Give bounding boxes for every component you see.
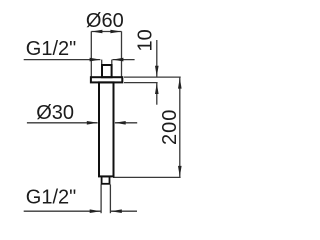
svg-text:G1/2": G1/2" [26, 187, 76, 209]
svg-text:200: 200 [159, 109, 181, 145]
svg-text:G1/2": G1/2" [26, 38, 76, 60]
svg-text:10: 10 [135, 29, 157, 51]
svg-text:Ø30: Ø30 [36, 102, 74, 124]
svg-text:Ø60: Ø60 [86, 10, 124, 32]
